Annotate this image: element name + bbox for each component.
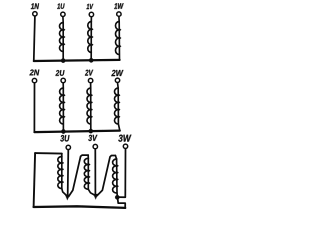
label 1V [87, 4, 94, 9]
wire diagonal 3V node to 3W winding [97, 156, 116, 196]
terminal 2N [32, 78, 36, 82]
winding 1U [59, 17, 65, 61]
label 1N [31, 3, 39, 8]
winding 3V [84, 155, 94, 195]
terminal 3U [66, 145, 70, 149]
wire 1N to neutral rail [34, 16, 35, 60]
wire jog from 3W junction to bottom return [118, 198, 126, 208]
winding 1V [88, 17, 93, 60]
neutral rail row 1 [34, 60, 120, 61]
terminal 1N [33, 12, 37, 16]
terminal 3V [93, 144, 97, 148]
winding 2W [114, 83, 120, 131]
label 3V [88, 135, 97, 141]
wire terminal 3V down to node [94, 149, 96, 194]
terminal 1U [61, 12, 65, 16]
terminal 1V [89, 12, 93, 16]
winding 2V [87, 83, 93, 131]
winding 3U [58, 154, 67, 196]
left return wire [34, 153, 36, 207]
junction dot 2U [61, 129, 65, 133]
winding 3W [113, 156, 119, 196]
label 2U [56, 70, 65, 76]
label 3W [118, 135, 131, 142]
label 1U [57, 4, 64, 9]
node 3V junction [94, 194, 98, 199]
terminal 1W [117, 12, 121, 16]
junction dot 3W [115, 195, 119, 199]
wire 2N to neutral rail [33, 83, 35, 131]
junction dot 1V [89, 58, 93, 62]
terminal 2V [88, 78, 92, 82]
neutral rail row 2 [34, 131, 119, 133]
label 2N [30, 70, 40, 76]
terminal 3W [123, 144, 127, 148]
terminal 2W [115, 78, 119, 82]
label 1W [114, 3, 123, 9]
junction dot 1U [61, 58, 65, 62]
terminal 2U [61, 78, 65, 82]
wire diagonal 3U node to 3V winding [69, 155, 89, 196]
junction dot 2V [89, 129, 93, 133]
label 2W [111, 70, 123, 76]
winding 2U [60, 83, 66, 131]
top rail of zigzag [35, 152, 62, 155]
node 3U junction [65, 195, 70, 200]
bottom return wire [34, 206, 126, 208]
label 3U [60, 135, 69, 142]
label 2V [85, 70, 93, 76]
wire terminal 3U down to node [67, 150, 70, 194]
wire terminal 3W down and left to junction [119, 149, 126, 198]
winding 1W [115, 17, 121, 60]
